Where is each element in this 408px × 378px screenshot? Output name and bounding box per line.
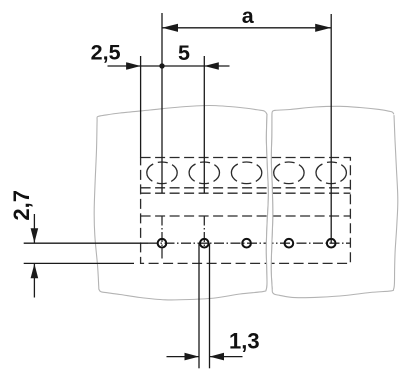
wire-entry ellipse 5 — [316, 162, 346, 184]
extension line hole2 right (dim 1,3) — [209, 243, 211, 368]
svg-text:a: a — [242, 4, 255, 28]
drill hole 3 — [242, 239, 251, 248]
svg-text:2,7: 2,7 — [9, 190, 34, 221]
drill hole 4 — [285, 239, 294, 248]
extension line x=204.3 (hole 2 center) — [203, 56, 205, 193]
arrowhead 2,7 down — [31, 228, 39, 243]
board break edge right — [271, 114, 273, 290]
vertical centerline hole 2 — [203, 216, 205, 249]
component outline dashed rect — [141, 158, 351, 264]
arrowhead a right — [315, 24, 331, 32]
extension line y=263.4 (dim 2,7 lower) — [24, 262, 134, 264]
horizontal centerline through holes (dash-dot) — [148, 242, 350, 244]
drill hole 5 — [327, 239, 336, 248]
wire-entry ellipse 4 — [274, 162, 304, 184]
drill hole 1 — [158, 239, 167, 248]
extension line x=162 (hole 1 center) — [161, 13, 163, 193]
svg-text:2,5: 2,5 — [91, 40, 121, 64]
arrowhead 1,3 left — [185, 353, 200, 361]
drill hole 2 — [200, 239, 209, 248]
svg-text:5: 5 — [178, 41, 190, 65]
wire-entry ellipse 2 — [189, 162, 219, 184]
extension line x=331.2 (hole 5 center, dim a) — [330, 14, 332, 243]
dimension line a — [162, 27, 331, 29]
wire-entry ellipse 1 — [147, 162, 177, 184]
board break edge left — [266, 114, 268, 290]
extension line x=140.6 (left edge, dim 2,5) — [140, 56, 142, 158]
dimension line 2,7 lower segment — [33, 264, 35, 298]
arrowhead 5 — [204, 62, 219, 70]
vertical centerline hole 1 — [161, 216, 163, 261]
arrowhead 2,5 — [126, 62, 141, 70]
node dot at hole1 extension — [159, 63, 164, 68]
extension line hole2 left (dim 1,3) — [198, 243, 200, 368]
wire-entry ellipse 3 — [231, 162, 261, 184]
dimension line 1,3 right segment — [210, 356, 243, 358]
dimension line 2,5 / 5 — [108, 65, 230, 67]
arrowhead 2,7 up — [31, 264, 39, 279]
dimension line 2,7 upper segment — [33, 214, 35, 243]
dimension line 1,3 left segment — [167, 356, 200, 358]
PCB board right (torn-edge outline) — [271, 106, 398, 297]
svg-text:1,3: 1,3 — [229, 329, 260, 354]
extension line y=243 (dim 2,7 upper) — [24, 242, 148, 244]
hidden edge dashed line 2 — [141, 192, 351, 194]
arrowhead a left — [162, 24, 178, 32]
arrowhead 1,3 right — [210, 353, 225, 361]
hidden edge dashed line 1 — [141, 187, 351, 189]
board break white strip — [266, 114, 273, 290]
PCB board left (torn-edge outline) — [94, 105, 268, 299]
hidden edge dashed line 3 — [141, 215, 351, 217]
